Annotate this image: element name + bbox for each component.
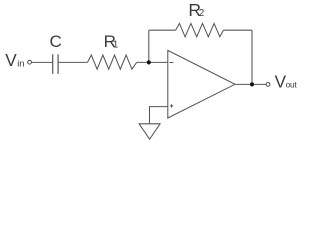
svg-text:V: V	[5, 50, 17, 70]
pin plus sign	[170, 104, 173, 107]
op-amp U1	[168, 50, 235, 118]
wire Vin to capacitor	[32, 61, 53, 63]
wire non-inverting input to ground	[150, 107, 168, 124]
wire R1 to op-amp inverting input	[137, 61, 168, 63]
resistor R2	[176, 23, 224, 36]
svg-text:C: C	[50, 32, 62, 51]
wire capacitor to R1	[58, 61, 87, 63]
capacitor C	[53, 54, 58, 74]
svg-text:out: out	[286, 80, 298, 90]
junction inverting input node	[147, 60, 151, 64]
junction output node	[250, 82, 254, 86]
svg-text:1: 1	[113, 39, 118, 50]
svg-text:in: in	[17, 57, 24, 68]
resistor R1	[88, 55, 137, 69]
pin minus sign	[170, 62, 174, 64]
wire op-amp output	[235, 83, 266, 85]
wire feedback left vertical	[148, 30, 150, 62]
node Vin terminal	[28, 60, 32, 64]
node Vout terminal	[266, 83, 270, 87]
wire feedback right vertical	[251, 30, 253, 84]
wire feedback top-right horizontal	[223, 29, 252, 31]
ground	[139, 124, 160, 139]
svg-text:2: 2	[199, 8, 204, 19]
wire feedback top-left horizontal	[149, 29, 176, 31]
